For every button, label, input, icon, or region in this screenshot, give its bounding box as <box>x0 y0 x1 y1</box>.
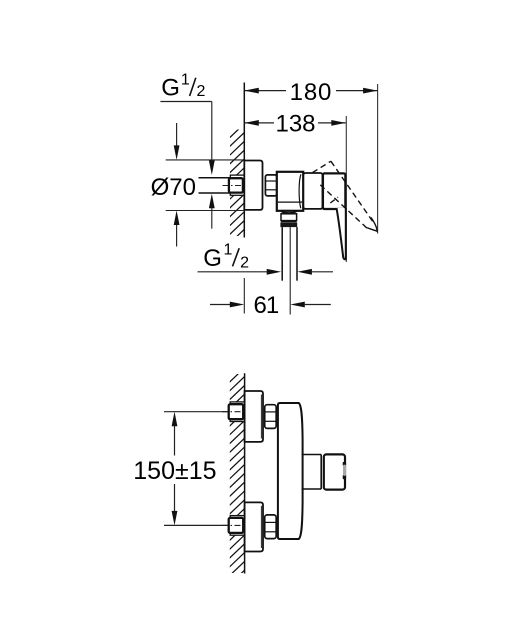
top union centerline <box>222 411 248 413</box>
svg-text:G: G <box>203 245 222 272</box>
dashed lever outline (upper position) <box>313 161 378 231</box>
dimension 61 <box>210 304 230 306</box>
valve body (top view) <box>277 172 303 211</box>
cartridge dome curve <box>299 174 301 208</box>
svg-text:180: 180 <box>290 79 332 106</box>
handle knob (bottom view) <box>324 454 345 489</box>
leader G1/2 outlet <box>198 271 268 273</box>
top S-union nut <box>265 405 277 429</box>
wall line (top view) <box>243 83 245 238</box>
handle cap <box>323 173 346 209</box>
supply pipe in wall <box>199 177 231 179</box>
svg-text:2: 2 <box>196 83 205 100</box>
svg-text:Ø70: Ø70 <box>151 174 196 201</box>
leader G1/2 top <box>160 101 211 103</box>
dimension lines Ø70 extents <box>166 159 245 161</box>
svg-text:138: 138 <box>275 110 315 137</box>
cartridge neck (bottom view) <box>302 454 322 456</box>
svg-text:G: G <box>161 74 180 101</box>
bottom wall union nut <box>229 518 244 533</box>
top wall union nut <box>229 404 244 419</box>
knob face highlight <box>343 465 346 476</box>
extension line 138 (x=346) <box>345 116 347 262</box>
outlet nipple <box>281 214 297 221</box>
bottom S-union nut <box>265 515 277 539</box>
mixer body (bottom view) <box>278 403 303 539</box>
bottom escutcheon flange <box>245 502 263 551</box>
extension line 180 (x=377.6) <box>377 84 379 234</box>
outlet shoulder <box>281 211 297 213</box>
hose nut (black band) <box>280 222 297 227</box>
dimension 150±15 <box>164 411 228 413</box>
Ø70 outside arrows <box>176 123 178 147</box>
bottom union centerline <box>222 524 248 526</box>
svg-text:61: 61 <box>254 292 279 319</box>
cartridge ring <box>303 173 322 209</box>
dimension 138 <box>244 122 274 124</box>
svg-text:150±15: 150±15 <box>133 457 216 485</box>
svg-text:2: 2 <box>240 254 249 271</box>
wall union nut (top view) <box>229 178 243 192</box>
escutcheon flange (top view, Ø70) <box>244 161 262 210</box>
lever handle (down position) <box>337 208 346 259</box>
top escutcheon flange <box>245 391 263 442</box>
S-union nut (top view) <box>265 175 276 196</box>
wall line (bottom view) <box>244 373 246 573</box>
svg-text:1: 1 <box>181 71 190 88</box>
union washer behind wall (top view) <box>230 175 244 195</box>
knob face edge caps <box>343 462 346 466</box>
dimension 180 <box>244 90 286 92</box>
centerline wall union (top view) <box>223 185 247 187</box>
shower hose walls <box>281 227 283 281</box>
top union washer <box>230 402 244 422</box>
bottom union washer <box>230 516 244 536</box>
body joint line <box>278 201 302 203</box>
dashed lever tip <box>366 218 377 232</box>
svg-text:1: 1 <box>224 242 233 259</box>
outlet centerline <box>289 227 291 314</box>
